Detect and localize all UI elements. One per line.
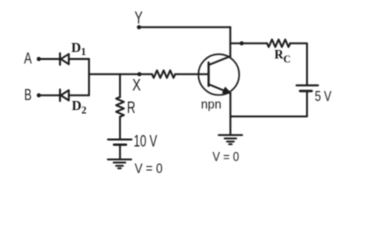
ground (left, V = 0) <box>108 159 131 168</box>
svg-text:B: B <box>24 87 31 104</box>
wire battery to ground <box>119 146 121 160</box>
node Y terminal dot <box>137 25 141 29</box>
svg-text:A: A <box>24 50 32 67</box>
wire A to D1 <box>39 58 60 60</box>
ground (right, V = 0) <box>219 135 242 144</box>
wire junction to node X <box>89 73 152 75</box>
svg-text:Y: Y <box>135 7 143 27</box>
wire Y <box>139 26 230 28</box>
svg-text:RC: RC <box>274 47 290 65</box>
wire joining D1 and D2 outputs <box>88 59 90 95</box>
svg-text:R: R <box>127 99 135 117</box>
battery 5 V <box>297 85 319 91</box>
svg-text:D2: D2 <box>72 98 87 117</box>
svg-text:X: X <box>132 76 141 95</box>
wire collector rail to RC <box>230 42 267 44</box>
battery 10 V <box>108 140 132 145</box>
diode D1 <box>60 53 89 65</box>
svg-text:V = 0: V = 0 <box>213 149 240 164</box>
wire down to resistor R <box>119 74 121 97</box>
collector wire up to rail <box>229 27 231 56</box>
rail junction dot <box>240 41 244 45</box>
wire resistor R to battery <box>119 117 121 139</box>
resistor R <box>116 97 124 117</box>
svg-text:D1: D1 <box>71 40 86 58</box>
svg-text:V = 0: V = 0 <box>135 161 163 176</box>
resistor RC <box>267 40 290 48</box>
svg-text:npn: npn <box>201 97 221 112</box>
resistor (base series) <box>152 70 175 78</box>
emitter wire down to ground <box>229 93 231 135</box>
svg-text:5 V: 5 V <box>315 88 332 105</box>
wire resistor to base <box>175 73 208 75</box>
wire B to D2 <box>39 94 60 96</box>
node X junction dot <box>137 72 141 76</box>
transistor Q1 npn <box>198 54 239 95</box>
wire battery negative to emitter line <box>230 92 307 116</box>
node B terminal dot <box>37 93 41 97</box>
node A terminal dot <box>37 57 41 61</box>
wire RC to battery 5 V <box>290 43 307 84</box>
svg-text:10 V: 10 V <box>134 131 158 150</box>
diode D2 <box>60 90 89 102</box>
